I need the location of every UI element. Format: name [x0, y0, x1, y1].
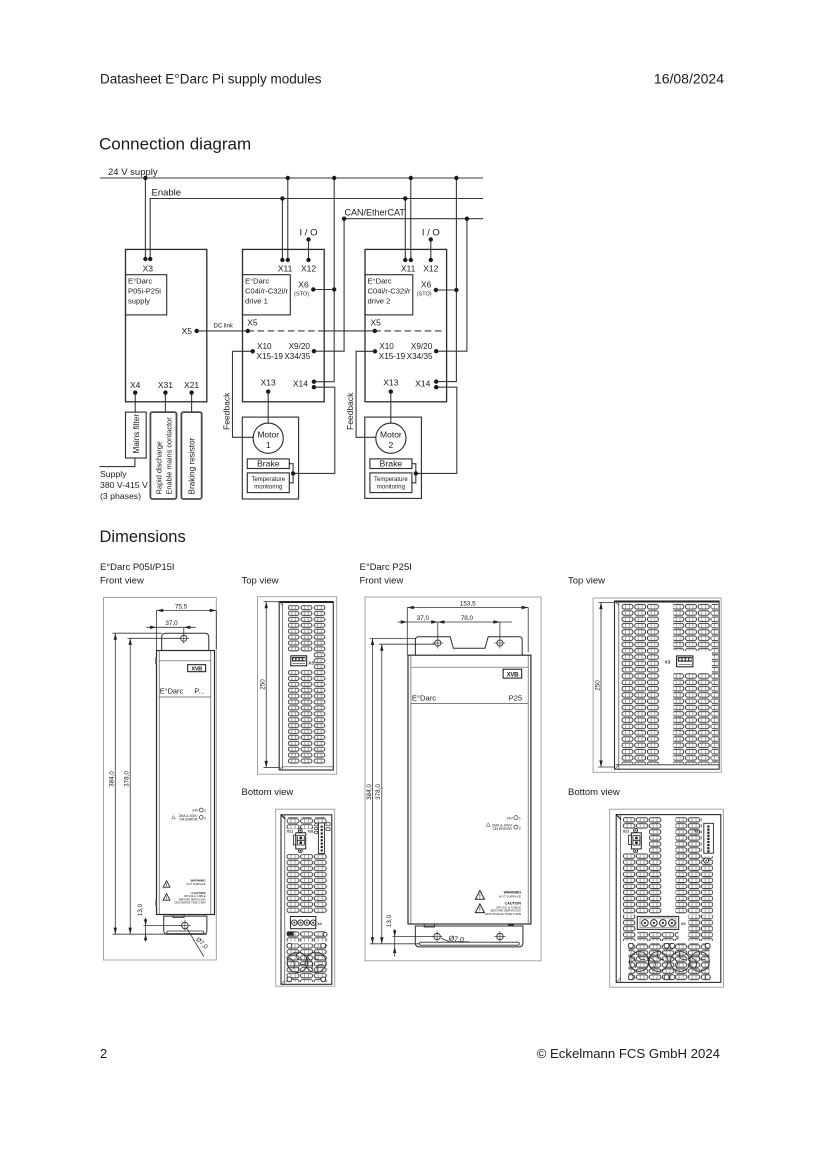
wire Enable bus: [150, 199, 482, 260]
motor1 circle: [253, 423, 283, 453]
svg-text:monitoring: monitoring: [254, 485, 282, 491]
svg-text:384,0: 384,0: [366, 784, 373, 800]
svg-text:Dimensions: Dimensions: [100, 528, 186, 546]
device outline P05 top: [279, 602, 333, 770]
pin supply X31: [163, 390, 167, 394]
svg-text:X3: X3: [308, 661, 314, 666]
arrowheads 378,0 P25: [380, 644, 383, 651]
wire DC link dashed inside drive2: [375, 330, 442, 332]
svg-text:380 V-415 V: 380 V-415 V: [100, 480, 148, 490]
fins right group upper P25 top: [673, 604, 711, 651]
svg-text:16/08/2024: 16/08/2024: [654, 71, 724, 87]
fan grille background P25: [629, 943, 710, 981]
svg-text:13,0: 13,0: [137, 903, 144, 916]
wire drive1 feedback X10 to motor1: [233, 351, 254, 437]
svg-text:CAN/EtherCAT: CAN/EtherCAT: [345, 208, 406, 218]
wire drive1 X13 to motor1: [267, 392, 269, 424]
svg-text:37,0: 37,0: [417, 615, 430, 622]
corner diagonals P25 top: [615, 601, 619, 605]
pin drive2 X10: [373, 349, 377, 353]
wire supply X4 to mains filter: [134, 393, 136, 413]
svg-text:E°Darc: E°Darc: [245, 277, 269, 286]
svg-text:Supply: Supply: [100, 469, 127, 479]
svg-text:HOT SURFACE: HOT SURFACE: [499, 895, 521, 899]
warning triangle 2: [163, 894, 170, 901]
left face line P25 bottom: [620, 815, 622, 983]
junction 24V drive2 X6 vertical: [454, 176, 458, 180]
svg-text:P...: P...: [194, 687, 204, 696]
svg-text:Motor: Motor: [257, 430, 279, 440]
pin drive2 X14 b: [434, 385, 438, 389]
base band P25 top: [616, 764, 720, 766]
svg-text:Bottom view: Bottom view: [242, 787, 294, 798]
junction 24V/X3: [143, 176, 147, 180]
arrowheads 13,0 P25: [393, 930, 396, 936]
wire drive1 X14 brake line: [293, 387, 335, 473]
bottom notch P05: [173, 915, 184, 918]
label strip line: [159, 696, 211, 698]
svg-text:Top view: Top view: [242, 576, 279, 587]
svg-text:Enable mains contactor: Enable mains contactor: [165, 417, 174, 495]
junction enable drive2: [403, 196, 407, 200]
wire supply X31 to rapid discharge: [164, 393, 166, 413]
frame P25 top: [593, 598, 721, 772]
wire drive1 X6 to 24V vertical: [313, 289, 334, 291]
pin drive2 X13: [389, 389, 393, 393]
svg-text:X13: X13: [383, 378, 398, 388]
arrowheads 153,5: [407, 606, 414, 609]
left face line: [282, 602, 284, 770]
ground screw: [323, 933, 327, 937]
wire vertical 24V/X6/X14 drive1: [314, 178, 334, 382]
svg-text:(STO): (STO): [294, 292, 309, 298]
top cap line: [159, 660, 211, 662]
fan 1 P25: [629, 952, 649, 972]
svg-text:X9/20: X9/20: [289, 342, 311, 351]
box supply label: [126, 275, 167, 315]
ground screw P25 bottom: [704, 858, 709, 863]
dim baseline bottom: [113, 933, 208, 935]
wire drive2 X13 to motor2: [390, 392, 392, 424]
svg-text:Datasheet E°Darc Pi supply mod: Datasheet E°Darc Pi supply modules: [100, 72, 322, 87]
svg-text:E°Darc: E°Darc: [368, 277, 392, 286]
right edge column P25 bottom: [702, 856, 713, 914]
bracket hole 1 P25: [432, 638, 443, 649]
top slots band P25 bottom left: [623, 817, 649, 829]
junction 24V drive1 X11: [286, 176, 290, 180]
svg-text:Temperature: Temperature: [251, 477, 285, 483]
svg-text:DC link: DC link: [214, 324, 234, 330]
pin drive2 X9/20: [434, 349, 438, 353]
svg-text:378,0: 378,0: [124, 771, 131, 787]
tab slot P05: [167, 931, 204, 934]
pin drive1 X13: [266, 389, 270, 393]
notch right small P25: [508, 924, 514, 926]
svg-text:Rapid discharge: Rapid discharge: [155, 441, 164, 494]
svg-text:24V: 24V: [192, 809, 199, 813]
svg-text:HOT SURFACE: HOT SURFACE: [186, 882, 205, 886]
svg-text:378,0: 378,0: [375, 784, 382, 800]
wire supply X21 to braking resistor: [191, 393, 193, 413]
svg-text:E°Darc P25I: E°Darc P25I: [360, 562, 412, 573]
side slots right of X4: [689, 915, 713, 941]
svg-text:Front view: Front view: [360, 576, 404, 587]
svg-text:I / O: I / O: [422, 228, 440, 239]
svg-text:X34/35: X34/35: [407, 352, 433, 361]
box brake 1: [247, 459, 289, 469]
warning triangle 1: [163, 881, 170, 888]
svg-text:drive 1: drive 1: [245, 297, 268, 306]
svg-text:250: 250: [594, 680, 601, 691]
module body P05: [157, 651, 215, 915]
svg-text:Enable: Enable: [152, 188, 182, 199]
frame P25 front: [365, 597, 541, 961]
arrowheads 384,0: [114, 633, 117, 640]
svg-text:250: 250: [260, 679, 267, 690]
box motor1 enclosure: [242, 417, 298, 499]
svg-text:X5: X5: [371, 318, 382, 328]
svg-text:I / O: I / O: [300, 228, 318, 239]
svg-text:75,5: 75,5: [175, 603, 188, 610]
fan screws: [287, 943, 326, 981]
connector X21 P25 bottom: [629, 828, 642, 853]
svg-text:X11: X11: [278, 264, 293, 274]
svg-text:Top view: Top view: [568, 576, 605, 587]
right edge small slots: [326, 823, 330, 826]
svg-text:Front view: Front view: [100, 576, 144, 587]
svg-text:1: 1: [519, 817, 521, 821]
connector X3 P25 top: [677, 656, 693, 667]
junction enable drive1: [280, 196, 284, 200]
small slots column left of X31: [315, 824, 318, 834]
wire mains supply feed: [100, 458, 135, 467]
mounting bracket top P25: [415, 637, 522, 655]
pin drive1 X5: [246, 329, 250, 333]
arrowheads 250: [265, 602, 268, 609]
box rapid discharge / enable mains contactor: [150, 412, 176, 499]
arrowheads 75,5: [157, 609, 164, 612]
box motor2 enclosure: [365, 417, 422, 498]
pin drive1 I/O end: [306, 237, 310, 241]
svg-text:(STO): (STO): [417, 292, 432, 298]
pin drive2 X12: [429, 258, 433, 262]
svg-text:X4: X4: [681, 922, 687, 926]
bottom notch P25: [424, 924, 434, 927]
svg-text:P25: P25: [509, 694, 523, 703]
corner diagonals P25 bottom: [616, 814, 621, 819]
svg-text:Braking resistor: Braking resistor: [188, 437, 197, 494]
svg-text:1: 1: [204, 809, 206, 813]
svg-text:X3: X3: [143, 264, 154, 274]
svg-text:drive 2: drive 2: [368, 297, 391, 306]
dim line 250 P25: [600, 603, 602, 768]
fins region lower left+mid columns: [288, 670, 314, 764]
pin drive2 I/O end: [429, 237, 433, 241]
arrowheads 378,0: [129, 638, 132, 645]
svg-text:153,5: 153,5: [460, 600, 476, 607]
svg-text:DISCHARGE TIME 5 MIN: DISCHARGE TIME 5 MIN: [174, 901, 205, 905]
continuous middle column P25 bottom left: [649, 817, 662, 914]
corner diagonals: [279, 602, 283, 606]
pin drive2 X11 a: [403, 258, 407, 262]
svg-text:X13: X13: [261, 378, 276, 388]
wire drive2 feedback X10 to motor2: [356, 351, 376, 437]
junction motor2 brake: [414, 471, 418, 475]
svg-text:ON ERROR: ON ERROR: [493, 827, 513, 831]
svg-text:Motor: Motor: [380, 430, 402, 440]
svg-text:E°Darc P05I/P15I: E°Darc P05I/P15I: [100, 562, 175, 573]
wire vertical 24V/X6/X14 drive2: [436, 178, 456, 382]
svg-text:Feedback: Feedback: [222, 392, 232, 430]
box braking resistor: [181, 412, 201, 499]
svg-text:2: 2: [204, 817, 206, 821]
svg-text:X4: X4: [130, 380, 141, 390]
fins right group lower P25 top: [673, 673, 711, 764]
middle fins P05 bottom: [287, 854, 328, 914]
svg-text:384,0: 384,0: [109, 771, 116, 787]
leader diameter 7,0 P25: [441, 938, 469, 942]
svg-text:X5: X5: [182, 326, 193, 336]
dim line 384,0 P25: [372, 638, 374, 943]
svg-text:WARNING: WARNING: [191, 879, 207, 883]
fan grille background P05: [287, 944, 328, 983]
connector X3 top view: [291, 656, 307, 666]
pin drive1 X11 a: [280, 258, 284, 262]
arrowheads 37,0: [401, 620, 408, 623]
svg-text:X9/20: X9/20: [411, 342, 433, 351]
svg-text:Feedback: Feedback: [345, 392, 355, 430]
junction 24V drive2 X11: [409, 176, 413, 180]
block drive 2: [365, 249, 447, 401]
pin X3 b: [148, 257, 152, 261]
panel edge lines: [158, 651, 160, 915]
svg-text:13,0: 13,0: [386, 914, 393, 927]
svg-text:X15-19: X15-19: [379, 352, 406, 361]
small slots row under X4: [637, 932, 678, 942]
side slots left of X4: [623, 915, 636, 941]
svg-text:!: !: [479, 908, 481, 914]
pin drive2 X6: [434, 288, 438, 292]
wire DC link supply X5 to drive1 X5: [197, 330, 248, 332]
fins region right column: [314, 605, 327, 764]
pin supply X4: [133, 390, 137, 394]
connector X31 bottom view: [318, 823, 324, 854]
tab hole P05: [179, 920, 191, 932]
junction drive1 X6 vertical: [332, 287, 336, 291]
leader diameter 7,0: [187, 928, 204, 957]
svg-text:X31: X31: [158, 380, 173, 390]
frame P05 bottom: [276, 809, 335, 986]
bottom face line: [283, 766, 334, 768]
fins right edge column P25 top: [712, 604, 718, 764]
connector X21 bottom view: [293, 829, 305, 853]
svg-text:24 V supply: 24 V supply: [108, 167, 158, 178]
left face line P25 top: [618, 601, 620, 769]
svg-text:ON ERROR: ON ERROR: [179, 817, 198, 821]
svg-text:X10: X10: [257, 342, 272, 351]
svg-text:X12: X12: [423, 264, 438, 274]
svg-text:X5: X5: [247, 318, 258, 328]
svg-text:Brake: Brake: [257, 459, 280, 469]
tab slot P25: [419, 942, 519, 945]
fins left group P25 top: [622, 604, 660, 764]
pin drive1 X9/20: [312, 349, 316, 353]
connector X31 P25 bottom: [704, 823, 714, 853]
svg-text:!: !: [479, 894, 481, 900]
junction 24V drive1 X6 vertical: [332, 176, 336, 180]
svg-text:(3 phases): (3 phases): [100, 491, 141, 501]
small slots band under X4: [287, 931, 328, 941]
pin drive1 X14 b: [312, 385, 316, 389]
svg-text:X21: X21: [184, 380, 199, 390]
arrowheads 250 P25: [599, 603, 602, 610]
frame P05 front: [104, 598, 217, 961]
dim line 37,0: [146, 626, 196, 628]
svg-text:XVB: XVB: [507, 673, 519, 679]
svg-text:2: 2: [100, 1046, 107, 1061]
arrowheads 78,0: [438, 620, 445, 623]
dim line 250: [265, 602, 267, 768]
dim line 37,0 / 78,0: [397, 621, 512, 623]
frame P05 top: [258, 597, 337, 775]
svg-text:X6: X6: [421, 280, 432, 290]
pin drive2 X14 a: [434, 379, 438, 383]
pin drive1 X14 a: [312, 380, 316, 384]
svg-text:X11: X11: [401, 264, 416, 274]
svg-text:X6: X6: [298, 280, 309, 290]
svg-text:C04i/r-C32i/r: C04i/r-C32i/r: [245, 287, 289, 296]
block supply module: [126, 249, 207, 401]
terminal X4 bottom view: [290, 917, 315, 929]
pin drive2 X5: [373, 329, 377, 333]
middle fins P25 bottom left: [623, 853, 649, 914]
wire drive2 X14 brake line: [416, 387, 457, 473]
wire 24V to drive1 X11: [287, 178, 289, 260]
svg-text:Mains filter: Mains filter: [132, 414, 141, 454]
svg-text:Connection diagram: Connection diagram: [99, 135, 251, 154]
svg-text:X14: X14: [415, 379, 430, 389]
label strip line P25: [411, 703, 528, 705]
svg-text:24V: 24V: [506, 816, 513, 820]
dim line 75,5: [157, 609, 217, 611]
top cap line P25: [411, 666, 528, 668]
wire I/O to drive1 X12: [308, 240, 310, 261]
box drive2 label: [365, 275, 413, 315]
junction drive2 X6 vertical: [454, 288, 458, 292]
dim line 378,0: [129, 638, 131, 934]
tab hole 2 P25: [494, 931, 505, 942]
junction CAN drive2: [465, 217, 469, 221]
wire 24 V supply bus: [101, 177, 483, 179]
box brake 2: [370, 459, 412, 469]
box mains filter: [126, 412, 147, 458]
box temperature monitoring 2: [370, 473, 412, 493]
tab hole 1 P25: [431, 931, 442, 942]
wire drive2 X6 to 24V vertical: [436, 289, 457, 291]
box drive1 label: [243, 275, 291, 315]
svg-text:37,0: 37,0: [165, 620, 178, 627]
wire drive2 X9/20 to CAN: [436, 219, 467, 352]
svg-text:E°Darc: E°Darc: [128, 277, 152, 286]
svg-text:DISCHARGE TIME 5 MIN: DISCHARGE TIME 5 MIN: [485, 912, 521, 916]
svg-text:X15-19: X15-19: [257, 352, 284, 361]
svg-text:!: !: [166, 895, 167, 900]
device top edge dark band P25: [615, 601, 719, 603]
bracket hole 2 P25: [494, 638, 505, 649]
svg-text:X34/35: X34/35: [284, 352, 310, 361]
frame P25 bottom: [610, 809, 724, 987]
warning triangle 2 P25: [475, 904, 484, 913]
bottom tab P05: [164, 916, 207, 934]
pin supply X5: [195, 329, 199, 333]
device top edge dark band: [280, 601, 334, 603]
tiny warning triangle icon: [172, 816, 176, 819]
wire DC link dashed inside drive1: [248, 330, 324, 332]
device outline P25 bottom: [616, 815, 721, 983]
svg-text:X21: X21: [287, 829, 293, 833]
wire enable to drive2 X11: [404, 199, 406, 261]
module body P25: [408, 655, 531, 924]
wire I/O to drive2 X12: [430, 240, 432, 261]
arrowheads 384,0 P25: [371, 638, 374, 645]
wire 24V to drive2 X11: [410, 178, 412, 260]
bottom tab P25: [415, 926, 523, 947]
pin drive1 X12: [306, 258, 310, 262]
fan 2 P25: [648, 952, 668, 972]
dim baseline bottom P25: [370, 943, 420, 945]
svg-text:78,0: 78,0: [461, 615, 474, 622]
svg-text:1: 1: [266, 440, 271, 450]
svg-text:Temperature: Temperature: [374, 477, 408, 483]
top slots band: [287, 817, 314, 829]
svg-text:© Eckelmann FCS GmbH 2024: © Eckelmann FCS GmbH 2024: [537, 1046, 720, 1061]
logo box P25: [503, 669, 522, 678]
pin X3 a: [143, 257, 147, 261]
svg-text:C04i/r-C32i/r: C04i/r-C32i/r: [368, 287, 412, 296]
svg-text:2: 2: [389, 440, 394, 450]
svg-text:P05i-P25i: P05i-P25i: [128, 287, 161, 296]
svg-text:E°Darc: E°Darc: [160, 687, 184, 696]
dim line 384,0: [114, 633, 116, 934]
wire 24V to supply X3: [144, 178, 146, 259]
wire DC link between drives: [324, 330, 375, 332]
svg-text:X21: X21: [623, 830, 629, 834]
svg-text:Brake: Brake: [380, 459, 403, 469]
svg-text:X31: X31: [307, 829, 313, 833]
svg-text:2: 2: [519, 826, 521, 830]
svg-text:monitoring: monitoring: [377, 485, 405, 491]
svg-text:Ø7,0: Ø7,0: [448, 935, 464, 944]
svg-text:X14: X14: [293, 379, 308, 389]
mounting bracket top P05: [162, 633, 209, 651]
fan 2: [306, 952, 326, 972]
pin drive2 X11 b: [409, 258, 413, 262]
motor2 circle: [376, 423, 406, 453]
svg-text:X10: X10: [379, 342, 394, 351]
svg-text:X3: X3: [665, 660, 671, 665]
wire enable to drive1 X11: [281, 199, 283, 261]
dim line 378,0 P25: [381, 644, 383, 944]
top slots band P25 bottom right (continuous): [676, 817, 702, 914]
dim line 13,0 P25: [394, 929, 396, 957]
wire drive1 X9/20 to CAN: [314, 219, 344, 352]
left face line: [284, 815, 286, 985]
logo box P05: [188, 665, 206, 672]
fan 3 P25: [671, 952, 691, 972]
svg-text:CAUTION: CAUTION: [191, 891, 206, 895]
corner diagonals: [281, 815, 286, 820]
arrowheads 37,0: [150, 626, 157, 629]
